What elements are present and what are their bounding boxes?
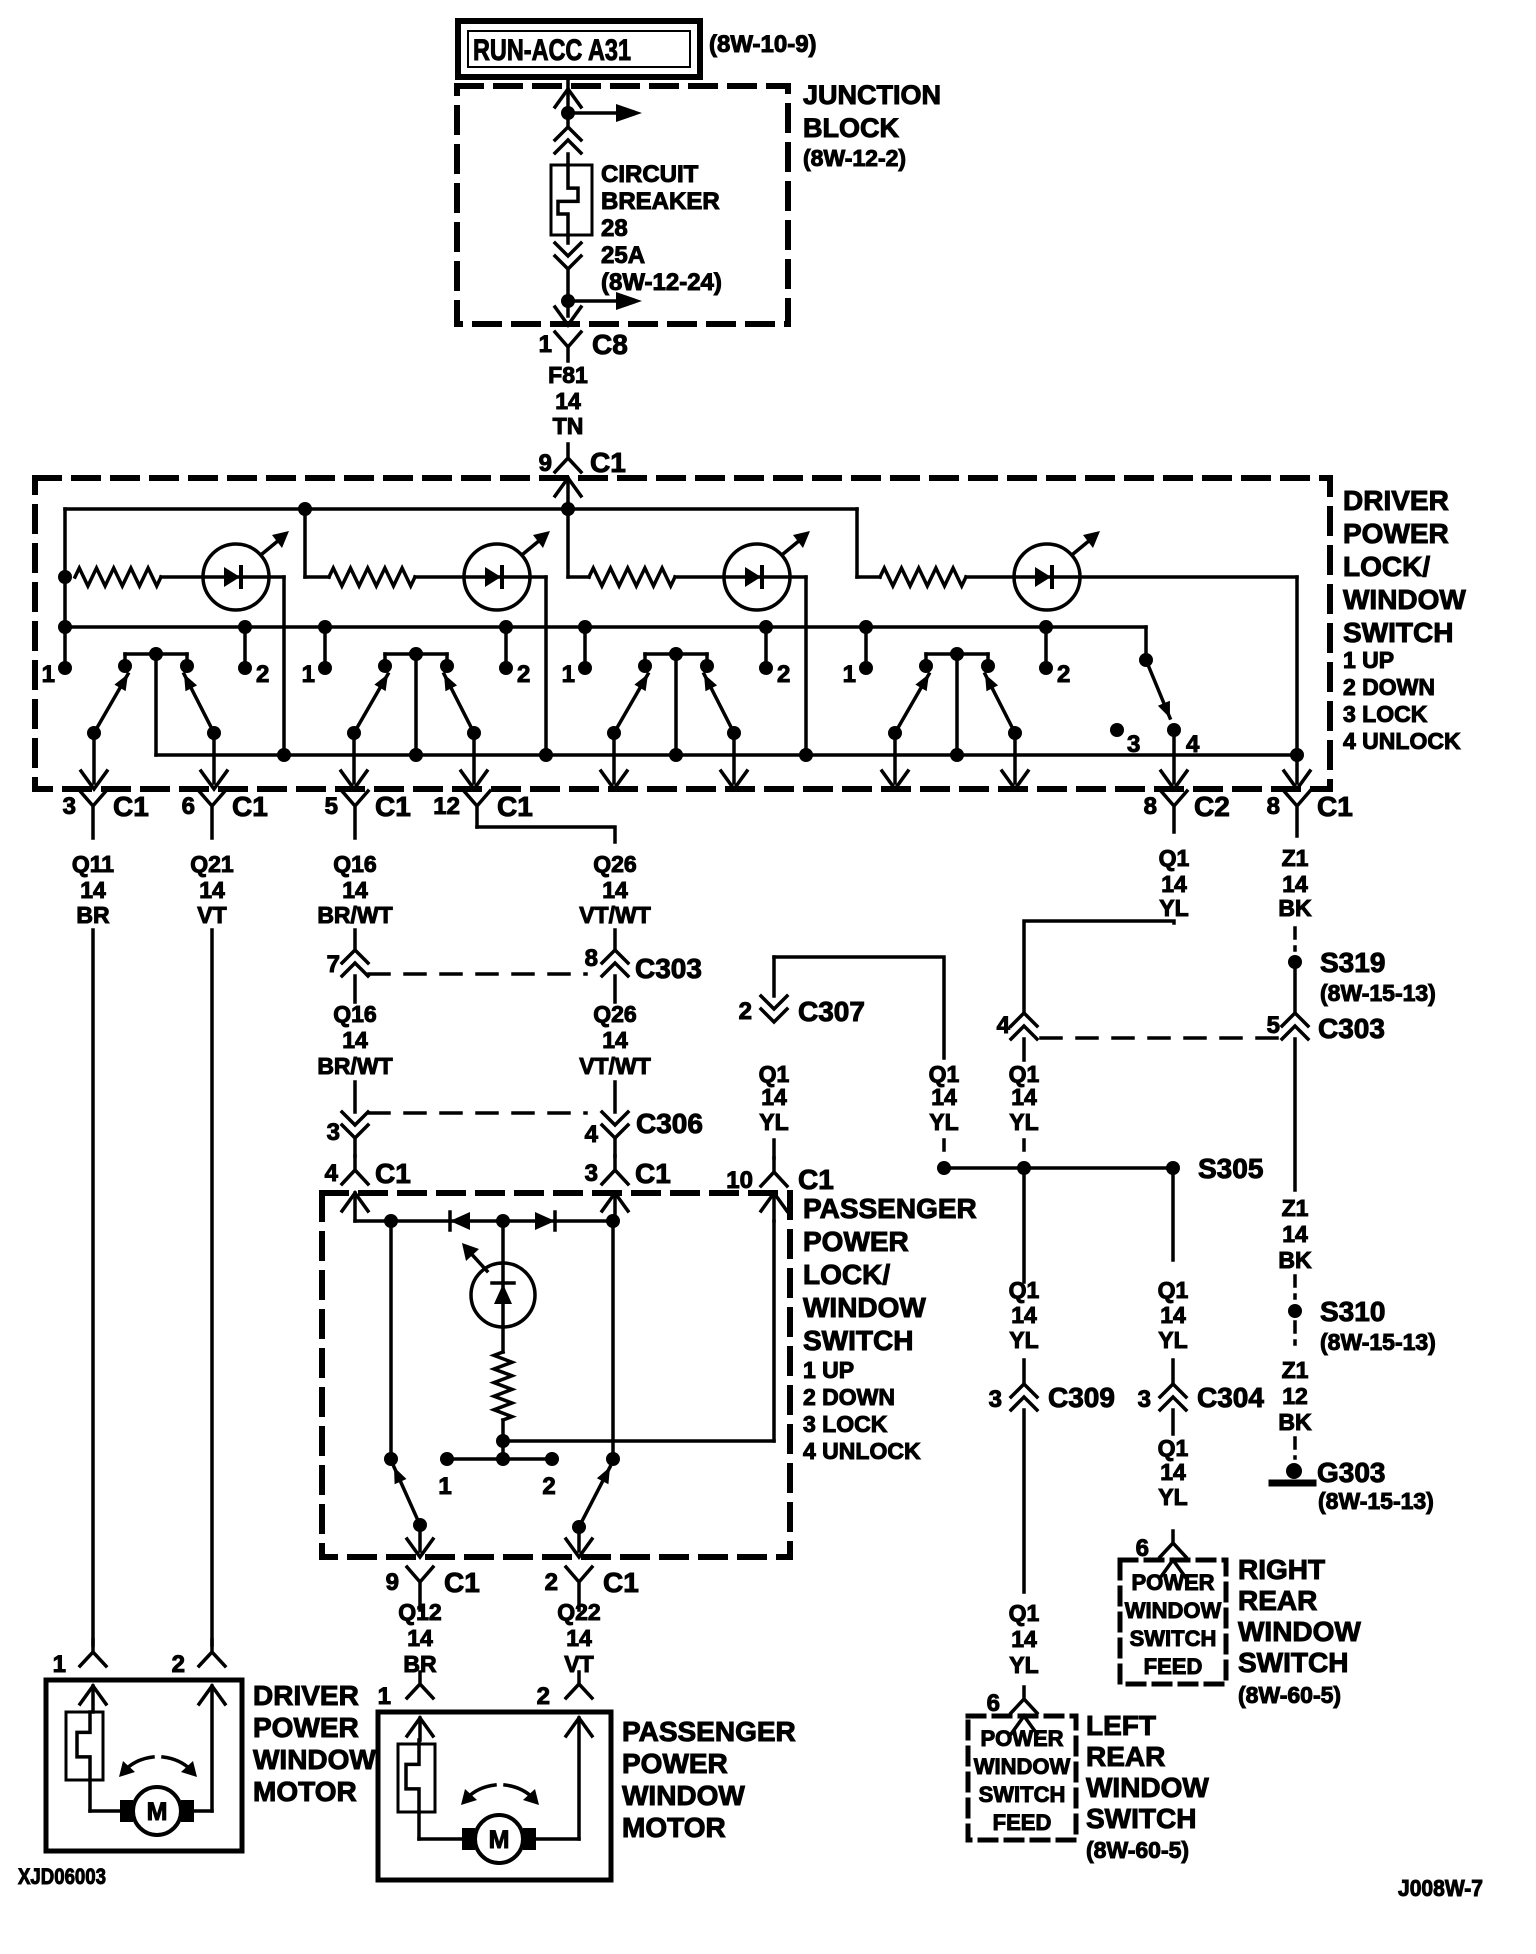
svg-text:Z1: Z1 xyxy=(1282,845,1309,871)
svg-text:Z1: Z1 xyxy=(1282,1195,1309,1221)
svg-text:14: 14 xyxy=(1011,1084,1037,1110)
svg-text:YL: YL xyxy=(1009,1327,1038,1353)
svg-text:BLOCK: BLOCK xyxy=(803,113,899,143)
svg-text:TN: TN xyxy=(553,413,584,439)
svg-text:BR/WT: BR/WT xyxy=(317,902,392,928)
svg-text:(8W-15-13): (8W-15-13) xyxy=(1320,1329,1436,1355)
svg-text:C1: C1 xyxy=(375,1158,411,1189)
svg-text:2: 2 xyxy=(739,998,752,1025)
svg-text:6: 6 xyxy=(987,1690,1000,1717)
svg-text:9: 9 xyxy=(539,450,552,477)
svg-text:POWER: POWER xyxy=(622,1748,728,1779)
svg-text:4: 4 xyxy=(997,1012,1011,1039)
svg-text:6: 6 xyxy=(182,793,195,820)
svg-text:2: 2 xyxy=(517,661,530,688)
svg-text:C306: C306 xyxy=(636,1108,703,1139)
svg-text:2: 2 xyxy=(777,661,790,688)
svg-text:1: 1 xyxy=(562,661,575,688)
svg-text:14: 14 xyxy=(80,877,106,903)
svg-text:C303: C303 xyxy=(1318,1013,1385,1044)
svg-text:WINDOW: WINDOW xyxy=(253,1744,376,1775)
svg-text:3: 3 xyxy=(63,793,76,820)
svg-text:Q21: Q21 xyxy=(190,851,234,877)
svg-text:POWER: POWER xyxy=(1131,1570,1214,1595)
svg-text:14: 14 xyxy=(1160,1302,1186,1328)
svg-text:M: M xyxy=(147,1798,168,1826)
svg-text:4: 4 xyxy=(325,1160,339,1187)
svg-text:WINDOW: WINDOW xyxy=(1125,1598,1222,1623)
svg-text:YL: YL xyxy=(759,1109,788,1135)
svg-text:25A: 25A xyxy=(601,242,645,269)
svg-text:POWER: POWER xyxy=(980,1726,1063,1751)
svg-text:14: 14 xyxy=(566,1625,592,1651)
svg-text:C2: C2 xyxy=(1194,791,1230,822)
svg-text:1: 1 xyxy=(843,661,856,688)
svg-text:C1: C1 xyxy=(603,1567,639,1598)
svg-text:3 LOCK: 3 LOCK xyxy=(803,1411,888,1437)
svg-text:POWER: POWER xyxy=(1343,518,1449,549)
svg-text:C307: C307 xyxy=(798,996,865,1027)
svg-text:Q1: Q1 xyxy=(1009,1277,1040,1303)
svg-text:1: 1 xyxy=(53,1651,66,1678)
svg-text:2: 2 xyxy=(542,1473,555,1500)
svg-text:DRIVER: DRIVER xyxy=(253,1680,359,1711)
svg-text:1: 1 xyxy=(438,1473,451,1500)
svg-text:LEFT: LEFT xyxy=(1086,1710,1156,1741)
svg-text:14: 14 xyxy=(1160,1459,1186,1485)
svg-text:14: 14 xyxy=(931,1084,957,1110)
svg-text:Q12: Q12 xyxy=(398,1599,441,1625)
svg-text:YL: YL xyxy=(1009,1652,1038,1678)
svg-text:SWITCH: SWITCH xyxy=(1130,1626,1217,1651)
svg-text:Q26: Q26 xyxy=(593,851,636,877)
svg-text:2: 2 xyxy=(537,1683,550,1710)
svg-text:SWITCH: SWITCH xyxy=(1343,617,1453,648)
svg-text:Q1: Q1 xyxy=(1158,1277,1189,1303)
svg-text:WINDOW: WINDOW xyxy=(803,1292,926,1323)
svg-text:14: 14 xyxy=(1161,871,1187,897)
svg-text:YL: YL xyxy=(1158,1484,1187,1510)
svg-text:2: 2 xyxy=(172,1651,185,1678)
svg-text:SWITCH: SWITCH xyxy=(803,1325,913,1356)
svg-text:REAR: REAR xyxy=(1238,1585,1317,1616)
svg-text:14: 14 xyxy=(199,877,225,903)
svg-text:BK: BK xyxy=(1278,895,1312,921)
svg-text:WINDOW: WINDOW xyxy=(1343,584,1466,615)
svg-text:S319: S319 xyxy=(1320,947,1385,978)
svg-text:(8W-15-13): (8W-15-13) xyxy=(1320,980,1436,1006)
svg-text:JUNCTION: JUNCTION xyxy=(803,80,941,110)
svg-text:3: 3 xyxy=(989,1386,1002,1413)
svg-text:Z1: Z1 xyxy=(1282,1357,1309,1383)
svg-text:8: 8 xyxy=(1267,793,1280,820)
svg-text:14: 14 xyxy=(602,1027,628,1053)
svg-text:LOCK/: LOCK/ xyxy=(803,1259,890,1290)
svg-text:8: 8 xyxy=(585,945,598,972)
svg-text:BK: BK xyxy=(1278,1409,1312,1435)
svg-text:MOTOR: MOTOR xyxy=(253,1776,357,1807)
svg-text:2: 2 xyxy=(1057,661,1070,688)
svg-text:YL: YL xyxy=(1159,895,1188,921)
svg-text:14: 14 xyxy=(602,877,628,903)
svg-text:C8: C8 xyxy=(592,329,628,360)
svg-text:CIRCUIT: CIRCUIT xyxy=(601,161,699,188)
svg-text:RUN-ACC A31: RUN-ACC A31 xyxy=(473,34,631,67)
svg-text:2: 2 xyxy=(545,1569,558,1596)
svg-text:4 UNLOCK: 4 UNLOCK xyxy=(1343,728,1461,754)
svg-text:C1: C1 xyxy=(1317,791,1353,822)
svg-text:C309: C309 xyxy=(1048,1382,1115,1413)
svg-text:14: 14 xyxy=(555,388,581,414)
svg-text:C1: C1 xyxy=(635,1158,671,1189)
svg-text:2 DOWN: 2 DOWN xyxy=(1343,674,1435,700)
svg-text:BK: BK xyxy=(1278,1247,1312,1273)
svg-text:1: 1 xyxy=(302,661,315,688)
svg-text:C1: C1 xyxy=(444,1567,480,1598)
svg-text:M: M xyxy=(489,1826,510,1854)
svg-text:Q1: Q1 xyxy=(1158,1435,1189,1461)
svg-text:C303: C303 xyxy=(635,953,702,984)
svg-text:Q22: Q22 xyxy=(557,1599,600,1625)
svg-text:G303: G303 xyxy=(1317,1457,1386,1488)
svg-text:(8W-60-5): (8W-60-5) xyxy=(1238,1682,1341,1708)
svg-text:VT/WT: VT/WT xyxy=(579,902,651,928)
svg-text:14: 14 xyxy=(342,1027,368,1053)
svg-text:3: 3 xyxy=(585,1160,598,1187)
svg-text:(8W-60-5): (8W-60-5) xyxy=(1086,1837,1189,1863)
svg-text:SWITCH: SWITCH xyxy=(1086,1803,1196,1834)
svg-text:1: 1 xyxy=(539,331,552,358)
svg-text:LOCK/: LOCK/ xyxy=(1343,551,1430,582)
svg-text:WINDOW: WINDOW xyxy=(1238,1616,1361,1647)
svg-text:5: 5 xyxy=(325,793,338,820)
svg-text:C1: C1 xyxy=(113,791,149,822)
svg-text:14: 14 xyxy=(342,877,368,903)
svg-text:14: 14 xyxy=(1011,1626,1037,1652)
svg-text:FEED: FEED xyxy=(993,1810,1052,1835)
svg-text:BR: BR xyxy=(76,902,110,928)
svg-text:POWER: POWER xyxy=(253,1712,359,1743)
svg-text:14: 14 xyxy=(1282,1221,1308,1247)
svg-text:J008W-7: J008W-7 xyxy=(1398,1875,1483,1901)
svg-text:14: 14 xyxy=(1011,1302,1037,1328)
svg-text:1: 1 xyxy=(378,1683,391,1710)
svg-text:C1: C1 xyxy=(798,1164,834,1195)
svg-text:4 UNLOCK: 4 UNLOCK xyxy=(803,1438,921,1464)
svg-text:4: 4 xyxy=(585,1121,599,1148)
svg-text:C1: C1 xyxy=(232,791,268,822)
svg-text:MOTOR: MOTOR xyxy=(622,1812,726,1843)
svg-text:Q16: Q16 xyxy=(333,851,376,877)
svg-text:S305: S305 xyxy=(1198,1153,1263,1184)
svg-text:3: 3 xyxy=(1138,1386,1151,1413)
svg-text:VT/WT: VT/WT xyxy=(579,1053,651,1079)
svg-text:Q16: Q16 xyxy=(333,1001,376,1027)
svg-text:WINDOW: WINDOW xyxy=(622,1780,745,1811)
svg-text:12: 12 xyxy=(433,793,460,820)
svg-text:1 UP: 1 UP xyxy=(1343,647,1394,673)
svg-text:VT: VT xyxy=(197,902,226,928)
svg-text:14: 14 xyxy=(1282,871,1308,897)
svg-text:10: 10 xyxy=(726,1167,753,1194)
svg-text:9: 9 xyxy=(386,1569,399,1596)
svg-text:1: 1 xyxy=(42,661,55,688)
svg-text:Q26: Q26 xyxy=(593,1001,636,1027)
svg-text:(8W-15-13): (8W-15-13) xyxy=(1318,1488,1434,1514)
svg-text:FEED: FEED xyxy=(1144,1654,1203,1679)
svg-text:RIGHT: RIGHT xyxy=(1238,1554,1325,1585)
svg-text:2 DOWN: 2 DOWN xyxy=(803,1384,895,1410)
svg-text:(8W-10-9): (8W-10-9) xyxy=(709,31,817,58)
svg-text:BREAKER: BREAKER xyxy=(601,188,720,215)
svg-text:POWER: POWER xyxy=(803,1226,909,1257)
svg-text:(8W-12-2): (8W-12-2) xyxy=(803,145,906,171)
svg-text:WINDOW: WINDOW xyxy=(974,1754,1071,1779)
svg-text:Q11: Q11 xyxy=(72,851,114,877)
svg-text:C1: C1 xyxy=(497,791,533,822)
svg-text:REAR: REAR xyxy=(1086,1741,1165,1772)
svg-text:3 LOCK: 3 LOCK xyxy=(1343,701,1428,727)
svg-text:BR/WT: BR/WT xyxy=(317,1053,392,1079)
svg-text:12: 12 xyxy=(1282,1383,1308,1409)
svg-text:C1: C1 xyxy=(590,447,626,478)
svg-text:7: 7 xyxy=(327,951,340,978)
svg-text:(8W-12-24): (8W-12-24) xyxy=(601,269,722,296)
svg-text:14: 14 xyxy=(407,1625,433,1651)
svg-text:YL: YL xyxy=(929,1109,958,1135)
svg-text:SWITCH: SWITCH xyxy=(1238,1647,1348,1678)
svg-text:Q1: Q1 xyxy=(1009,1600,1040,1626)
svg-text:YL: YL xyxy=(1158,1327,1187,1353)
svg-text:5: 5 xyxy=(1267,1012,1280,1039)
svg-text:C1: C1 xyxy=(375,791,411,822)
svg-text:1 UP: 1 UP xyxy=(803,1357,854,1383)
svg-text:PASSENGER: PASSENGER xyxy=(803,1193,977,1224)
svg-text:YL: YL xyxy=(1009,1109,1038,1135)
svg-text:28: 28 xyxy=(601,215,628,242)
svg-text:2: 2 xyxy=(256,661,269,688)
svg-text:PASSENGER: PASSENGER xyxy=(622,1716,796,1747)
svg-text:DRIVER: DRIVER xyxy=(1343,485,1449,516)
svg-text:XJD06003: XJD06003 xyxy=(18,1864,106,1889)
svg-text:WINDOW: WINDOW xyxy=(1086,1772,1209,1803)
svg-text:3: 3 xyxy=(327,1119,340,1146)
svg-text:F81: F81 xyxy=(548,362,588,388)
svg-text:8: 8 xyxy=(1144,793,1157,820)
svg-text:C304: C304 xyxy=(1197,1382,1264,1413)
svg-text:SWITCH: SWITCH xyxy=(979,1782,1066,1807)
svg-text:S310: S310 xyxy=(1320,1296,1385,1327)
svg-text:Q1: Q1 xyxy=(1159,845,1190,871)
svg-text:14: 14 xyxy=(761,1084,787,1110)
